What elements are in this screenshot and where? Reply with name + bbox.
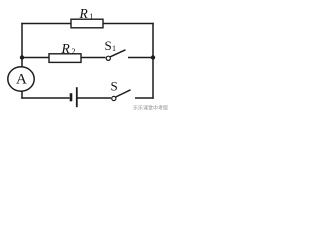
wire middle branch center bbox=[81, 57, 106, 59]
svg-text:S: S bbox=[111, 79, 118, 94]
switch S1 bbox=[105, 38, 126, 60]
wire top right horizontal bbox=[103, 23, 154, 25]
wire middle branch right bbox=[128, 57, 153, 59]
wire left vertical upper bbox=[21, 23, 23, 58]
wire left vertical to ammeter bbox=[21, 58, 23, 68]
node right junction bbox=[151, 55, 155, 59]
wire bottom left bbox=[21, 97, 69, 99]
watermark text bbox=[133, 105, 168, 112]
ammeter A bbox=[8, 67, 34, 91]
wire middle branch left bbox=[22, 57, 49, 59]
resistor R2 bbox=[49, 41, 81, 63]
svg-text:1: 1 bbox=[112, 44, 116, 53]
wire bottom center bbox=[78, 97, 112, 99]
node left junction bbox=[20, 55, 24, 59]
wire bottom right bbox=[135, 97, 154, 99]
svg-text:A: A bbox=[16, 72, 27, 88]
switch S bbox=[111, 79, 131, 101]
svg-text:2: 2 bbox=[72, 47, 76, 56]
svg-text:S: S bbox=[105, 38, 112, 53]
battery bbox=[71, 87, 77, 107]
resistor R1 bbox=[71, 6, 103, 28]
wire top left horizontal bbox=[21, 23, 71, 25]
svg-text:1: 1 bbox=[90, 12, 94, 21]
wire right vertical bbox=[152, 23, 154, 99]
svg-text:乐乐课堂中考版: 乐乐课堂中考版 bbox=[133, 105, 168, 112]
svg-text:R: R bbox=[79, 6, 89, 21]
svg-text:R: R bbox=[61, 41, 71, 56]
wire left vertical lower bbox=[21, 91, 23, 99]
